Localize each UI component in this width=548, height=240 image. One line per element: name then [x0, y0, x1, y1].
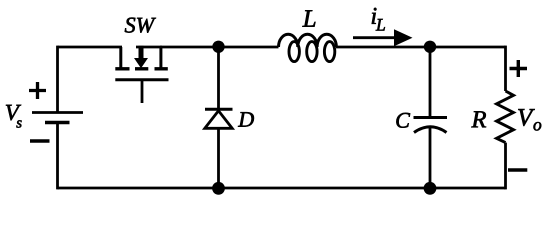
- transistor SW: gate lead: [141, 81, 144, 103]
- transistor SW: drain lead stub: [119, 47, 122, 68]
- wire: top rail right segment (switch to inductor): [160, 46, 279, 49]
- label Vs: [6, 105, 22, 128]
- wire: diode branch upper (switch node to cathode): [217, 47, 220, 109]
- transistor SW: drain terminal bar: [115, 67, 129, 70]
- label R: [471, 111, 486, 127]
- inductor L: under-loop 3: [324, 42, 334, 62]
- node: diode/bottom rail junction dot: [212, 182, 225, 195]
- current arrow iL: head: [394, 29, 413, 46]
- label L: [302, 10, 315, 26]
- transistor SW: source terminal bar: [155, 67, 168, 70]
- transistor SW: body arrow head: [134, 58, 148, 68]
- wire: diode branch lower (anode to bottom rail): [217, 129, 220, 189]
- wire: capacitor branch upper (output node to top plate): [429, 47, 432, 118]
- current arrow iL: shaft: [353, 36, 397, 39]
- wire: top rail left segment (battery to switch drain): [58, 46, 123, 49]
- label D: [238, 112, 254, 126]
- wire: capacitor branch lower (curved plate to bottom rail): [429, 127, 432, 189]
- wire: left vertical, top rail to battery positive plate: [56, 46, 59, 112]
- inductor L: under-loop 2: [307, 42, 317, 62]
- node: inductor/capacitor junction dot (top): [424, 41, 436, 53]
- node: capacitor/bottom rail junction dot: [424, 182, 437, 195]
- diode D: anode triangle pointing up: [205, 111, 232, 129]
- transistor SW: body arrow shaft: [139, 46, 144, 59]
- wire: top rail middle segment (switch arrow to source stub): [136, 46, 162, 49]
- label Vo: [518, 109, 541, 130]
- plus sign, Vo polarity: [510, 60, 528, 77]
- transistor SW: middle terminal bar: [135, 67, 148, 70]
- transistor SW: source lead stub: [159, 47, 162, 68]
- plus sign, Vs polarity: [29, 82, 46, 99]
- voltage source Vs: short negative plate: [45, 121, 70, 125]
- voltage source Vs: long positive plate: [32, 111, 83, 114]
- minus sign, Vo polarity: [508, 168, 527, 172]
- transistor SW: gate line: [115, 78, 168, 81]
- capacitor C: straight top plate: [414, 116, 448, 119]
- diode D: cathode bar: [205, 108, 233, 111]
- inductor L: three humps: [279, 34, 337, 47]
- label iL: [372, 8, 385, 31]
- label C: [396, 113, 410, 128]
- resistor R: zigzag: [497, 91, 514, 143]
- minus sign, Vs polarity: [30, 139, 50, 143]
- wire: top rail segment (inductor to output corner): [336, 46, 506, 49]
- label SW: [125, 18, 156, 33]
- node: switch/diode junction dot (top): [212, 41, 224, 53]
- wire: left vertical, battery negative plate to bottom rail: [56, 123, 59, 190]
- wire: bottom rail: [58, 187, 506, 190]
- wire: right vertical, resistor to bottom rail: [504, 143, 507, 190]
- wire: right vertical, top rail to resistor: [504, 46, 507, 91]
- inductor L: under-loop 1: [289, 42, 299, 62]
- capacitor C: curved bottom plate: [414, 127, 447, 133]
